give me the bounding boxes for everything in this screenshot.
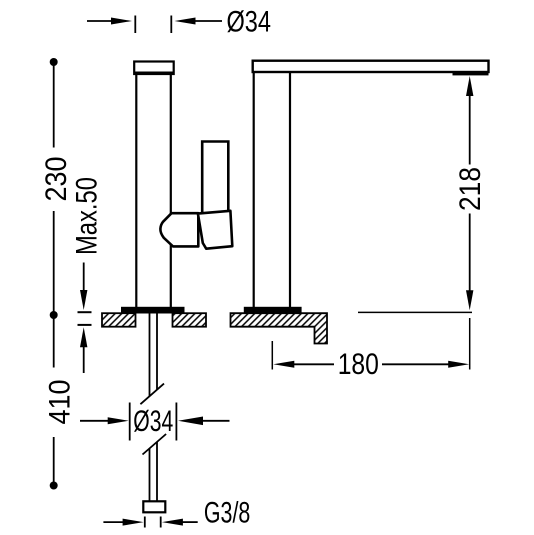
svg-text:410: 410 (43, 380, 76, 425)
countertop left slab right part (hatched) (173, 313, 207, 327)
dim G3/8: left arrow (103, 521, 124, 523)
Max.50 tick top (counter surface) (78, 311, 92, 313)
dimension Ø34 top: arrow right (175, 18, 196, 25)
svg-text:218: 218 (454, 167, 487, 211)
left dim line lower segment (53, 437, 55, 486)
Max.50 tick bottom (78, 324, 92, 326)
countertop right slab (hatched, L-shaped) (231, 313, 328, 343)
right pipe right edge (289, 72, 291, 308)
dim Ø34 bottom: right arrow (178, 417, 203, 426)
left overall dim line upper segment (53, 62, 55, 148)
dim Ø34 bottom: left arrow (80, 420, 111, 422)
node dot top (50, 58, 58, 66)
break mark lower (143, 434, 167, 455)
dim G3/8: right arrow (162, 519, 183, 526)
dim 218: lower segment and arrow (down) (469, 214, 471, 292)
extension line vertical left (pipe axis) (271, 341, 273, 370)
dim 218: top arrow (up) (466, 76, 473, 96)
Max.50 dim: lower arrow (up) (80, 327, 87, 347)
tick left (144, 517, 146, 528)
svg-text:180: 180 (338, 348, 379, 381)
node dot bottom (50, 482, 58, 490)
tick right (160, 517, 162, 528)
svg-text:G3/8: G3/8 (204, 496, 250, 529)
Max.50 dim: upper arrow (down) (83, 263, 85, 292)
svg-text:Max.50: Max.50 (70, 177, 103, 255)
tick left pipe right edge (170, 16, 172, 34)
extension line counter surface (358, 311, 472, 313)
right flange (base) (244, 307, 302, 314)
dim 180: left arrow (points left) (273, 361, 294, 368)
break mark upper (140, 384, 164, 405)
handle lever left body (160, 213, 198, 246)
supply pipe right line upper (156, 314, 158, 390)
left flange (base) (121, 307, 185, 314)
svg-text:230: 230 (40, 157, 73, 202)
countertop left slab left part (hatched) (102, 313, 136, 327)
supply pipe left line lower (149, 448, 151, 501)
svg-text:Ø34: Ø34 (227, 6, 272, 39)
extension line vertical right (469, 318, 471, 370)
left pipe left edge (135, 74, 137, 308)
G3/8 connector (143, 501, 165, 512)
cap thick bottom edge (134, 71, 175, 74)
tick left (129, 403, 131, 441)
spout outlet block (453, 71, 489, 75)
spout top bar (253, 61, 489, 72)
supply pipe right line lower (156, 442, 158, 501)
tick left pipe left edge (134, 16, 136, 34)
node dot middle (50, 311, 58, 319)
right pipe left edge (253, 72, 255, 308)
faucet body cap (left unit top) (134, 62, 174, 75)
left dim line middle segment (53, 211, 55, 368)
dim 180: right arrow (points right) (382, 363, 449, 365)
svg-text:Ø34: Ø34 (133, 405, 173, 438)
left pipe right edge (170, 74, 172, 308)
supply pipe left line upper (149, 314, 151, 397)
tick right (175, 403, 177, 441)
handle lever right body (198, 211, 232, 249)
handle grip (202, 142, 228, 214)
dimension Ø34 top: arrow left (87, 20, 112, 22)
